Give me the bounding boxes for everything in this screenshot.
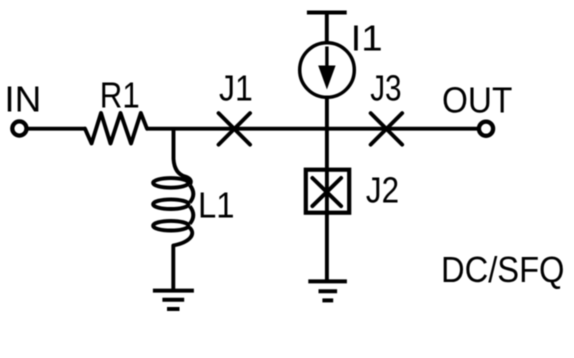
svg-text:J3: J3 xyxy=(370,67,401,108)
svg-text:I1: I1 xyxy=(351,18,383,59)
svg-text:L1: L1 xyxy=(198,184,235,225)
svg-text:J1: J1 xyxy=(219,68,253,109)
svg-text:J2: J2 xyxy=(366,170,399,211)
svg-text:DC/SFQ: DC/SFQ xyxy=(441,249,565,290)
svg-text:OUT: OUT xyxy=(442,80,512,121)
svg-text:R1: R1 xyxy=(100,74,140,115)
svg-text:IN: IN xyxy=(4,79,41,120)
